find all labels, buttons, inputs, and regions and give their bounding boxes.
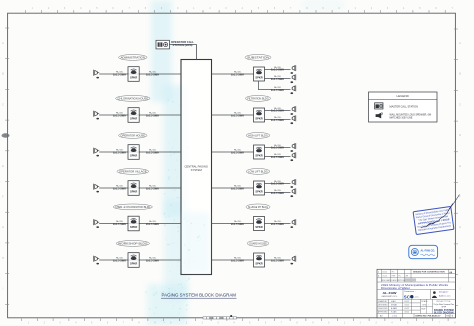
cable label left row 2 b xyxy=(146,111,159,117)
svg-text:SC: SC xyxy=(404,294,411,299)
svg-text:6: 6 xyxy=(423,322,425,325)
svg-text:SPKR: SPKR xyxy=(130,190,137,194)
svg-text:1: 1 xyxy=(28,322,30,325)
cable label left row 6 b xyxy=(146,256,159,262)
svg-text:4: 4 xyxy=(391,322,393,325)
cable label right row 3 main xyxy=(231,148,244,154)
svg-text:C: C xyxy=(2,103,4,106)
svg-text:4: 4 xyxy=(242,7,244,10)
zone label oval: OPERATOR HOUSE (left row 3) xyxy=(119,133,147,139)
amplifier block A-R3 xyxy=(254,145,265,159)
svg-text:5: 5 xyxy=(419,7,421,10)
loudspeaker LS-R4b xyxy=(290,188,295,197)
svg-text:2x1.5 SWA: 2x1.5 SWA xyxy=(271,222,284,226)
company seal stamp (rounded) xyxy=(409,245,438,258)
svg-text:ADMINISTRATION: ADMINISTRATION xyxy=(121,56,146,59)
svg-text:6: 6 xyxy=(435,7,437,10)
cable label left row 3 a xyxy=(113,148,126,154)
loudspeaker LS-R4a xyxy=(290,179,295,188)
wire branch 1 right row 2 xyxy=(265,109,291,111)
svg-text:03.22: 03.22 xyxy=(405,305,410,307)
svg-text:2: 2 xyxy=(48,7,50,10)
svg-text:CHEM. & CHLORINATION BLDG: CHEM. & CHLORINATION BLDG xyxy=(115,206,150,209)
svg-text:SPKR: SPKR xyxy=(130,262,137,266)
loudspeaker LS-L5 xyxy=(94,219,100,228)
svg-text:SPKR: SPKR xyxy=(255,116,262,120)
svg-text:AL-FAW: AL-FAW xyxy=(383,291,398,295)
legend box xyxy=(369,92,438,122)
wire branch 1 right row 5 xyxy=(265,223,291,225)
svg-text:2x1.5 SWA: 2x1.5 SWA xyxy=(231,222,244,226)
svg-text:H: H xyxy=(2,257,4,260)
svg-text:BLOCK DIAGRAM: BLOCK DIAGRAM xyxy=(434,311,454,314)
cable label branch 2 right row 1 xyxy=(271,75,284,81)
svg-text:OPERATOR VILLAGE: OPERATOR VILLAGE xyxy=(119,170,147,173)
svg-text:SPKR: SPKR xyxy=(255,261,262,265)
drawing title text: PAGING SYSTEM BLOCK DIAGRAM xyxy=(161,293,237,299)
cyan speckles over panel xyxy=(184,218,205,264)
wire branch 2 right row 4 xyxy=(265,192,291,194)
svg-text:4: 4 xyxy=(80,7,82,10)
zone label oval: CHLORINATION HOUSE (left row 2) xyxy=(116,96,150,102)
svg-text:3: 3 xyxy=(387,7,389,10)
svg-text:A: A xyxy=(459,42,461,45)
svg-text:6: 6 xyxy=(112,7,114,10)
wire left row 4 xyxy=(99,187,181,189)
svg-text:AL-FAW CO.: AL-FAW CO. xyxy=(421,248,436,252)
svg-text:4: 4 xyxy=(75,322,77,325)
amplifier block A-L3 xyxy=(128,145,139,160)
svg-text:2x1.5 SWA: 2x1.5 SWA xyxy=(146,222,159,226)
zone label oval: GUARD HOUSE (right row 6) xyxy=(247,241,269,247)
wire panel to block right row 1 xyxy=(212,73,254,75)
svg-text:4: 4 xyxy=(403,7,405,10)
loudspeaker LS-R2a xyxy=(290,106,295,115)
svg-text:Designer :: Designer : xyxy=(439,290,449,293)
svg-text:APPROVED: APPROVED xyxy=(378,311,388,314)
svg-text:1: 1 xyxy=(344,322,346,325)
amplifier block A-L1 xyxy=(128,67,139,82)
svg-text:R.JAS: R.JAS xyxy=(391,311,397,314)
wire branch 2 right row 3 xyxy=(265,156,291,158)
graphic scale bar xyxy=(203,315,237,319)
amplifier block A-R5 xyxy=(254,217,265,231)
title block revision table text xyxy=(378,271,453,282)
svg-text:HIGH LIFT BLDG: HIGH LIFT BLDG xyxy=(248,135,268,137)
svg-text:SYSTEM: SYSTEM xyxy=(191,168,203,172)
svg-text:1: 1 xyxy=(193,7,195,10)
svg-text:B: B xyxy=(459,73,461,76)
svg-text:2x1.5 SWA: 2x1.5 SWA xyxy=(113,150,126,154)
zone label oval: OPERATOR VILLAGE (left row 4) xyxy=(117,169,149,175)
cable label right row 6 main xyxy=(231,256,244,262)
svg-text:2x1.5 SWA: 2x1.5 SWA xyxy=(231,186,244,190)
legend: loudspeaker symbol xyxy=(376,113,383,119)
svg-text:WALL MOUNTED LOUD SPEAKER, 6W: WALL MOUNTED LOUD SPEAKER, 6W xyxy=(390,113,432,116)
svg-text:SPKR: SPKR xyxy=(255,153,262,157)
svg-text:8: 8 xyxy=(454,322,456,325)
wire panel to block right row 3 xyxy=(212,151,254,153)
svg-text:2x1.5 SWA: 2x1.5 SWA xyxy=(271,146,284,150)
svg-text:2: 2 xyxy=(209,7,211,10)
svg-text:E: E xyxy=(459,165,461,168)
svg-text:MASTER CALL STATION: MASTER CALL STATION xyxy=(390,105,419,108)
loudspeaker LS-R6a xyxy=(290,256,295,265)
contractor logo SC xyxy=(404,290,419,299)
wire left row 6 xyxy=(99,259,181,261)
wire panel to block right row 4 xyxy=(212,187,254,189)
svg-text:2x1.5 SWA: 2x1.5 SWA xyxy=(113,72,126,76)
svg-text:SLUDGE PIT BLDG: SLUDGE PIT BLDG xyxy=(248,207,268,209)
zone label oval: SUBSTATION (right row 1) xyxy=(245,55,271,61)
central paging system panel xyxy=(181,60,212,275)
svg-text:SCALE: SCALE xyxy=(421,300,428,303)
loudspeaker LS-L6 xyxy=(94,256,100,265)
svg-text:GROUP CO.: GROUP CO. xyxy=(382,296,399,298)
svg-text:2x1.5 SWA: 2x1.5 SWA xyxy=(113,222,126,226)
svg-text:8: 8 xyxy=(296,322,298,325)
svg-text:6: 6 xyxy=(274,7,276,10)
svg-text:2x1.5 SWA: 2x1.5 SWA xyxy=(113,113,126,117)
svg-text:REV: REV xyxy=(446,316,451,318)
wire branch 1 right row 4 xyxy=(265,182,291,184)
master call station MCS xyxy=(156,40,169,49)
svg-text:5: 5 xyxy=(249,322,251,325)
cable label branch 2 right row 3 xyxy=(271,153,284,159)
svg-text:SPKR: SPKR xyxy=(130,76,137,80)
amplifier block A-L4 xyxy=(128,181,139,196)
svg-text:2: 2 xyxy=(202,322,204,325)
svg-text:2x1.5 SWA: 2x1.5 SWA xyxy=(146,258,159,262)
svg-text:3: 3 xyxy=(59,322,61,325)
svg-text:2: 2 xyxy=(44,322,46,325)
svg-text:CHECKED: CHECKED xyxy=(378,308,388,310)
svg-text:-LLC: -LLC xyxy=(414,297,419,299)
cable label left row 1 b xyxy=(146,70,159,76)
cable label left row 1 a xyxy=(113,70,126,76)
svg-text:PROJECT TITLE :: PROJECT TITLE : xyxy=(436,301,451,303)
cable label branch 2 right row 2 xyxy=(271,116,284,122)
svg-text:DRAWN BY: DRAWN BY xyxy=(378,300,388,303)
svg-text:5: 5 xyxy=(96,7,98,10)
svg-text:SPKR: SPKR xyxy=(255,189,262,193)
cable label branch 1 right row 1 xyxy=(271,66,284,72)
legend text: master call station xyxy=(390,105,419,108)
svg-text:M.KAR: M.KAR xyxy=(391,304,398,307)
svg-text:G: G xyxy=(2,226,4,229)
wire left row 5 xyxy=(99,223,181,225)
svg-text:Thi-Qar Water Treatment Plant: Thi-Qar Water Treatment Plant xyxy=(434,303,455,306)
svg-text:SPKR: SPKR xyxy=(255,225,262,229)
svg-text:0: 0 xyxy=(177,7,179,10)
loudspeaker LS-R1b xyxy=(290,74,295,83)
amplifier block A-R2 xyxy=(254,108,265,122)
svg-text:2x1.5 SWA: 2x1.5 SWA xyxy=(271,182,284,186)
svg-text:8: 8 xyxy=(145,7,147,10)
title block ministry text xyxy=(381,283,449,290)
svg-text:2x1.5 SWA: 2x1.5 SWA xyxy=(113,186,126,190)
cable label left row 5 b xyxy=(146,220,159,226)
svg-text:F: F xyxy=(2,196,4,199)
svg-text:03.22: 03.22 xyxy=(405,312,410,314)
svg-text:3: 3 xyxy=(225,7,227,10)
svg-text:1: 1 xyxy=(32,7,34,10)
svg-text:9: 9 xyxy=(312,322,314,325)
svg-text:2x1.5 SWA: 2x1.5 SWA xyxy=(231,72,244,76)
svg-text:2x1.5 SWA: 2x1.5 SWA xyxy=(271,109,284,113)
svg-text:C: C xyxy=(459,103,461,106)
cable label left row 4 a xyxy=(113,184,126,190)
svg-text:ISSUED FOR CONSTRUCTION: ISSUED FOR CONSTRUCTION xyxy=(413,272,445,274)
designer cell with person icon xyxy=(432,290,451,298)
wire panel to block right row 2 xyxy=(212,114,254,116)
svg-text:DESIGNED: DESIGNED xyxy=(378,305,388,307)
svg-text:SPKR: SPKR xyxy=(130,154,137,158)
svg-text:3: 3 xyxy=(64,7,66,10)
svg-text:0: 0 xyxy=(328,322,330,325)
cable label branch 3 right row 1 xyxy=(271,86,284,92)
cable label branch 1 right row 5 xyxy=(271,220,284,226)
zone label oval: SLUDGE PIT BLDG (right row 5) xyxy=(246,204,270,210)
wire branch 1 right row 1 xyxy=(265,68,291,70)
loudspeaker LS-R1a xyxy=(290,65,295,74)
cable label right row 1 main xyxy=(231,70,244,76)
svg-text:H: H xyxy=(459,257,461,260)
svg-text:A: A xyxy=(2,42,4,45)
svg-text:0: 0 xyxy=(378,271,379,273)
cable label right row 2 main xyxy=(231,111,244,117)
zone label oval: WORKSHOP BLDG (left row 6) xyxy=(116,241,149,247)
svg-text:01.22: 01.22 xyxy=(383,276,388,278)
cable label left row 5 a xyxy=(113,220,126,226)
svg-text:PAGING SYSTEM BLOCK DIAGRAM: PAGING SYSTEM BLOCK DIAGRAM xyxy=(162,293,237,298)
svg-text:2: 2 xyxy=(371,7,373,10)
amplifier block A-R6 xyxy=(254,253,265,267)
amplifier block A-L2 xyxy=(128,108,139,123)
svg-text:5: 5 xyxy=(407,322,409,325)
svg-text:SPKR: SPKR xyxy=(255,75,262,79)
cable label branch 1 right row 3 xyxy=(271,144,284,150)
svg-text:2x1.5 SWA: 2x1.5 SWA xyxy=(271,88,284,92)
cable label branch 1 right row 6 xyxy=(271,256,284,262)
svg-text:2x1.5 SWA: 2x1.5 SWA xyxy=(146,150,159,154)
svg-text:2x1.5 SWA: 2x1.5 SWA xyxy=(271,118,284,122)
svg-text:SPKR: SPKR xyxy=(130,225,137,229)
signature squiggle over approval stamp xyxy=(421,195,460,229)
svg-text:6: 6 xyxy=(107,322,109,325)
svg-text:1: 1 xyxy=(355,7,357,10)
loudspeaker LS-R2b xyxy=(290,115,295,124)
svg-text:I: I xyxy=(460,288,461,291)
loudspeaker LS-R3b xyxy=(290,152,295,161)
legend: master call station symbol xyxy=(375,103,383,109)
cable label right row 4 main xyxy=(231,184,244,190)
cable label left row 3 b xyxy=(146,148,159,154)
loudspeaker LS-L4 xyxy=(94,184,100,193)
svg-text:Contractor :: Contractor : xyxy=(404,290,416,293)
svg-text:D: D xyxy=(459,134,461,137)
svg-text:03.22: 03.22 xyxy=(383,271,388,273)
wire branch 2 right row 1 xyxy=(265,78,291,80)
svg-text:3: 3 xyxy=(217,322,219,325)
svg-text:2x1.5 SWA: 2x1.5 SWA xyxy=(271,258,284,262)
svg-text:3: 3 xyxy=(375,322,377,325)
svg-text:2x1.5 SWA: 2x1.5 SWA xyxy=(271,191,284,195)
loudspeaker LS-R3a xyxy=(290,143,295,152)
svg-text:H.ALI: H.ALI xyxy=(391,300,396,303)
loudspeaker LS-L3 xyxy=(94,148,100,157)
wire branch 3 right row 1 (from block bottom) xyxy=(259,81,291,90)
amplifier block A-L5 xyxy=(128,216,139,231)
zone label oval: ADMINISTRATION (left row 1) xyxy=(119,55,147,61)
svg-text:7: 7 xyxy=(290,7,292,10)
master call station label xyxy=(171,40,194,47)
svg-text:SUBSTATION: SUBSTATION xyxy=(247,56,270,59)
svg-text:5: 5 xyxy=(91,322,93,325)
title block approvals table xyxy=(378,300,409,314)
svg-text:SPKR: SPKR xyxy=(130,117,137,121)
svg-text:03.22: 03.22 xyxy=(405,301,410,303)
cyan speckle dots xyxy=(145,99,190,323)
zone label oval: LOW LIFT BLDG (right row 4) xyxy=(246,169,270,175)
svg-text:GUARD HOUSE: GUARD HOUSE xyxy=(249,242,267,245)
svg-text:D: D xyxy=(2,134,4,137)
svg-text:DWRG NO: PW-ELE0-17: DWRG NO: PW-ELE0-17 xyxy=(416,316,442,318)
project title cell xyxy=(434,301,455,314)
wire branch 1 right row 6 xyxy=(265,259,291,261)
amplifier block A-R1 xyxy=(254,67,265,81)
cable label left row 2 a xyxy=(113,111,126,117)
svg-text:4: 4 xyxy=(233,322,235,325)
svg-text:CENTRAL PAGING: CENTRAL PAGING xyxy=(184,165,207,169)
svg-text:B: B xyxy=(2,73,4,76)
svg-text:03.22: 03.22 xyxy=(405,308,410,310)
svg-text:Directorate of Water: Directorate of Water xyxy=(381,286,410,290)
svg-text:1:100: 1:100 xyxy=(392,316,398,318)
title block xyxy=(377,269,455,318)
svg-text:6: 6 xyxy=(265,322,267,325)
svg-text:2: 2 xyxy=(360,322,362,325)
svg-text:7: 7 xyxy=(123,322,125,325)
svg-text:F: F xyxy=(459,196,461,199)
cable label right row 5 main xyxy=(231,220,244,226)
amplifier block A-L6 xyxy=(128,253,139,268)
svg-text:2x1.5 SWA: 2x1.5 SWA xyxy=(271,77,284,81)
wire left row 1 xyxy=(99,73,181,75)
svg-text:2x1.5 SWA: 2x1.5 SWA xyxy=(113,258,126,262)
svg-text:7: 7 xyxy=(129,7,131,10)
loudspeaker LS-L2 xyxy=(94,111,100,120)
wire panel to block right row 6 xyxy=(212,259,254,261)
svg-text:WORKSHOP BLDG: WORKSHOP BLDG xyxy=(118,243,147,245)
wire left row 3 xyxy=(99,151,181,153)
svg-text:2x1.5 SWA: 2x1.5 SWA xyxy=(271,68,284,72)
title block bottom strip xyxy=(380,315,454,318)
cable label branch 1 right row 4 xyxy=(271,180,284,186)
svg-text:STATION (MCS): STATION (MCS) xyxy=(173,43,193,47)
wire branch 1 right row 3 xyxy=(265,146,291,148)
amplifier block A-R4 xyxy=(254,181,265,195)
svg-text:2x1.5 SWA: 2x1.5 SWA xyxy=(146,72,159,76)
svg-text:I: I xyxy=(3,288,4,291)
svg-text:1: 1 xyxy=(186,322,188,325)
scale cell xyxy=(421,300,429,311)
svg-text:2x1.5 SWA: 2x1.5 SWA xyxy=(231,258,244,262)
svg-text:8: 8 xyxy=(138,322,140,325)
svg-text:SIZE: SIZE xyxy=(421,308,426,310)
svg-text:OPERATOR HOUSE: OPERATOR HOUSE xyxy=(121,134,146,137)
wire MCS to panel xyxy=(169,45,196,60)
svg-text:Address LLC: Address LLC xyxy=(439,294,451,297)
zone label oval: HIGH LIFT BLDG (right row 3) xyxy=(246,133,270,139)
svg-text:7: 7 xyxy=(281,322,283,325)
wire branch 2 right row 2 xyxy=(265,119,291,121)
svg-text:REV DATE DESCRIPTION: REV DATE DESCRIPTION xyxy=(381,279,406,282)
svg-text:LEGEND: LEGEND xyxy=(397,94,410,98)
svg-text:FILTRATION BLDG: FILTRATION BLDG xyxy=(247,97,268,100)
svg-text:G: G xyxy=(459,226,461,229)
svg-text:CHLORINATION HOUSE: CHLORINATION HOUSE xyxy=(118,97,149,100)
wire left row 2 xyxy=(99,114,181,116)
svg-text:7: 7 xyxy=(452,7,454,10)
wire panel to block right row 5 xyxy=(212,223,254,225)
svg-text:2x1.5 SWA: 2x1.5 SWA xyxy=(271,155,284,159)
loudspeaker LS-L1 xyxy=(94,70,100,79)
contractor logo cell xyxy=(382,291,399,298)
svg-text:A.SAM: A.SAM xyxy=(391,307,397,310)
svg-text:5: 5 xyxy=(258,7,260,10)
svg-text:2x1.5 SWA: 2x1.5 SWA xyxy=(231,150,244,154)
svg-text:MATCHED 100V LINE: MATCHED 100V LINE xyxy=(390,117,413,120)
loudspeaker LS-R5a xyxy=(290,219,295,228)
legend text: wall mounted loudspeaker xyxy=(390,113,432,119)
cable label left row 6 a xyxy=(113,256,126,262)
zone label oval: CHEM. & CHLORINATION BLDG (left row 5) xyxy=(113,204,152,210)
svg-text:7: 7 xyxy=(439,322,441,325)
svg-text:2x1.5 SWA: 2x1.5 SWA xyxy=(231,113,244,117)
cyan scan artifact band xyxy=(147,0,344,326)
approval stamp (rotated rectangular) xyxy=(413,206,454,234)
cable label left row 4 b xyxy=(146,184,159,190)
svg-text:E: E xyxy=(2,165,4,168)
svg-text:2x1.5 SWA: 2x1.5 SWA xyxy=(146,113,159,117)
svg-text:LOW LIFT BLDG: LOW LIFT BLDG xyxy=(248,171,268,173)
zone label oval: FILTRATION BLDG (right row 2) xyxy=(245,96,270,102)
svg-text:2x1.5 SWA: 2x1.5 SWA xyxy=(146,186,159,190)
loudspeaker LS-R1c xyxy=(290,85,295,94)
cable label branch 2 right row 4 xyxy=(271,189,284,195)
cable label branch 1 right row 2 xyxy=(271,107,284,113)
